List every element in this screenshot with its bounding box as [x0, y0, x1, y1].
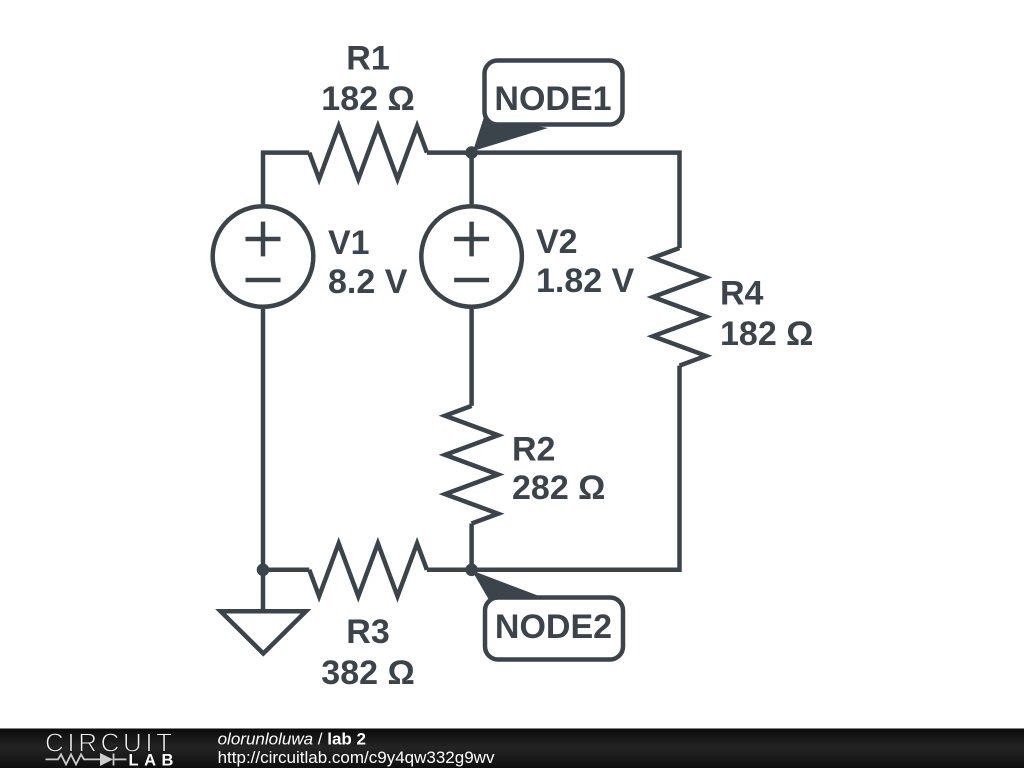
node NODE2 callout leader — [472, 571, 543, 601]
svg-text:1.82 V: 1.82 V — [536, 262, 635, 300]
node NODE1 callout leader — [473, 117, 548, 151]
wire R3 to node2 — [427, 568, 472, 573]
svg-text:182 Ω: 182 Ω — [321, 80, 414, 118]
wire V1 bottom down to bottom rail — [261, 309, 266, 570]
svg-text:282 Ω: 282 Ω — [512, 469, 605, 507]
wire node1 to top-right corner down to R4 — [427, 153, 680, 248]
resistor R4 — [653, 248, 706, 366]
voltage source V1 — [213, 206, 314, 307]
svg-text:182 Ω: 182 Ω — [720, 315, 813, 353]
resistor R1 — [309, 126, 427, 179]
svg-text:http://circuitlab.com/c9y4qw33: http://circuitlab.com/c9y4qw332g9wv — [218, 748, 495, 767]
wire top-left corner from V1 to R1 — [263, 153, 309, 204]
node B junction dot NODE2 — [465, 564, 478, 577]
wire bottom-left to R3 — [263, 568, 309, 573]
wire node1 down to V2 — [469, 153, 474, 204]
svg-text:R2: R2 — [512, 430, 555, 468]
node C junction dot ground rail — [257, 564, 270, 577]
node NODE2 callout box — [485, 598, 623, 660]
resistor R3 — [309, 543, 427, 596]
resistor R2 — [445, 406, 498, 524]
CircuitLab logo mini resistor and diode — [46, 754, 127, 766]
ground — [221, 611, 306, 653]
svg-text:olorunloluwa / lab 2: olorunloluwa / lab 2 — [218, 729, 366, 748]
svg-text:R1: R1 — [346, 39, 389, 77]
svg-text:R4: R4 — [720, 274, 764, 312]
wire ground stub — [261, 570, 266, 611]
voltage source V2 — [421, 206, 522, 307]
wire R4 bottom to bottom-right corner to node2 — [472, 366, 680, 570]
svg-text:V2: V2 — [536, 223, 578, 261]
svg-text:LAB: LAB — [129, 752, 179, 768]
svg-text:8.2 V: 8.2 V — [328, 263, 408, 301]
svg-text:R3: R3 — [346, 613, 389, 651]
wire V2 bottom to R2 — [469, 309, 474, 406]
node NODE1 callout box — [485, 61, 623, 125]
wire R2 bottom to node2 — [469, 524, 474, 570]
node A junction dot NODE1 — [465, 146, 478, 159]
svg-text:NODE2: NODE2 — [495, 608, 612, 646]
svg-text:382 Ω: 382 Ω — [321, 654, 414, 692]
svg-text:NODE1: NODE1 — [494, 80, 611, 118]
svg-text:V1: V1 — [328, 224, 370, 262]
